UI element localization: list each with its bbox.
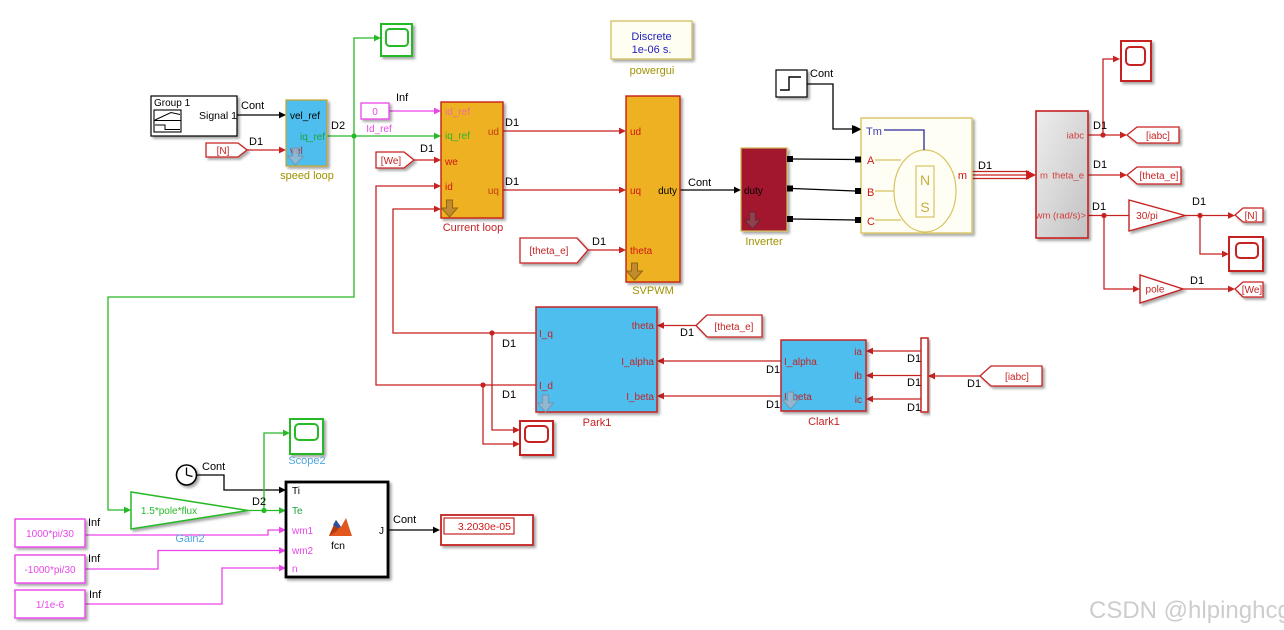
svg-text:[N]: [N]: [217, 146, 230, 157]
wire SVPWM duty to Inverter duty (Cont): [680, 187, 741, 194]
svg-text:D1: D1: [502, 338, 516, 350]
wire bus theta_e to goto tag theta_e (D1): [1088, 172, 1127, 179]
label D1 on motor m wire: [978, 160, 992, 172]
goto tag [theta_e]: [1127, 167, 1181, 184]
svg-text:theta: theta: [630, 246, 653, 257]
label D1 on uq wire: [505, 176, 519, 188]
svg-text:wm1: wm1: [291, 526, 314, 537]
wire Inverter out C to motor C: [793, 219, 855, 220]
label D1 on pole output: [1190, 275, 1204, 287]
label D1 on theta wire: [592, 236, 606, 248]
svg-text:Cont: Cont: [393, 514, 416, 526]
badge link-arrow SVPWM: [627, 263, 643, 280]
wire Clark1 I_alpha to Park1 I_alpha (D1): [657, 358, 781, 365]
constant 1000*pi/30: [15, 519, 85, 547]
label Inf on constant2 wire: [88, 553, 101, 565]
wire iabc branch up to scope: [1103, 56, 1120, 135]
svg-text:Gain2: Gain2: [175, 533, 204, 545]
svg-text:I_d: I_d: [539, 381, 553, 392]
svg-text:D1: D1: [907, 377, 921, 389]
wire bus iabc to goto tag iabc (D1): [1088, 132, 1127, 139]
svg-text:fcn: fcn: [331, 540, 345, 552]
badge link-arrow Inverter: [745, 212, 761, 229]
svg-text:Cont: Cont: [241, 100, 264, 112]
svg-text:D1: D1: [505, 117, 519, 129]
label speed loop: [280, 170, 334, 182]
label D1 on theta_e wire: [1093, 159, 1107, 171]
wire demux out1 to Clark1 ia (D1): [866, 348, 921, 355]
junction dot on 30/pi output: [1197, 213, 1202, 218]
wire I_d branch to scope input 2: [483, 385, 520, 447]
svg-text:Inf: Inf: [88, 553, 101, 565]
from tag [theta_e] to SVPWM: [520, 238, 588, 263]
wire clock to fcn Ti (Cont): [197, 475, 286, 493]
svg-text:[theta_e]: [theta_e]: [530, 246, 569, 257]
red scope (currents, two inputs): [520, 421, 553, 455]
icon MATLAB logo in fcn: [329, 518, 352, 536]
svg-text:Cont: Cont: [688, 177, 711, 189]
svg-text:duty: duty: [658, 186, 677, 197]
wire junction right to Current loop iq_ref: [354, 133, 441, 140]
label D1 on Park theta wire: [680, 327, 694, 339]
svg-text:Cont: Cont: [202, 461, 225, 473]
svg-text:30/pi: 30/pi: [1136, 211, 1158, 222]
wire constant 1/1e-6 to fcn n (Inf magenta): [85, 565, 286, 604]
svg-text:uq: uq: [488, 186, 499, 197]
powergui block: [611, 21, 692, 59]
wire demux out2 to Clark1 ib (D1): [866, 372, 921, 379]
svg-text:1000*pi/30: 1000*pi/30: [26, 529, 74, 540]
svg-text:C: C: [867, 216, 875, 228]
label Cont on clock wire: [202, 461, 225, 473]
svg-text:Park1: Park1: [583, 417, 612, 429]
wire I_q branch to scope input 1: [492, 333, 520, 433]
svg-text:[iabc]: [iabc]: [1146, 131, 1170, 142]
svg-text:m: m: [958, 170, 967, 182]
goto tag [iabc]: [1127, 127, 1179, 143]
wire Current loop ud to SVPWM ud (D1): [503, 128, 626, 135]
badge link-arrow Current loop: [442, 200, 458, 217]
goto tag [We]: [1235, 282, 1263, 297]
wire constant 0 to Current loop id_ref (magenta): [389, 108, 441, 115]
label D1 on I_beta wire: [766, 399, 780, 411]
svg-text:D1: D1: [502, 389, 516, 401]
svg-text:pole: pole: [1146, 285, 1165, 296]
wire Current loop uq to SVPWM uq (D1): [503, 187, 626, 194]
svg-text:Inf: Inf: [89, 589, 102, 601]
label Inf on constant3 wire: [89, 589, 102, 601]
wire from-tag We to Current loop we: [414, 157, 441, 164]
svg-text:D2: D2: [331, 120, 345, 132]
junction dot on I_q wire: [489, 330, 494, 335]
svg-text:A: A: [867, 155, 875, 167]
svg-text:we: we: [444, 157, 458, 168]
svg-text:D1: D1: [766, 364, 780, 376]
svg-text:D1: D1: [505, 176, 519, 188]
junction dot on I_d wire: [480, 382, 485, 387]
svg-text:ib: ib: [854, 371, 862, 382]
svg-text:D1: D1: [680, 327, 694, 339]
svg-text:D1: D1: [249, 136, 263, 148]
svg-text:iq_ref: iq_ref: [445, 131, 470, 142]
svg-text:J: J: [379, 526, 384, 537]
svg-text:[iabc]: [iabc]: [1005, 372, 1029, 383]
svg-text:D2: D2: [252, 496, 266, 508]
wire demux out3 to Clark1 ic (D1): [866, 396, 921, 403]
label D1 on 30/pi output: [1192, 196, 1206, 208]
wire signal builder to speed loop vel_ref (Cont): [237, 112, 286, 119]
wire Inverter out A to motor A: [793, 158, 855, 161]
from tag [iabc]: [980, 366, 1042, 386]
block Inverter: [741, 148, 787, 231]
wire constant 1000*pi/30 to fcn wm1 (Inf magenta): [85, 527, 286, 535]
wire Park1 I_q output to Current loop iq: [393, 206, 536, 333]
svg-text:[We]: [We]: [1242, 285, 1263, 296]
port pad Inverter out B: [787, 186, 793, 192]
svg-text:ic: ic: [855, 395, 862, 406]
junction dot on iabc wire: [1100, 132, 1105, 137]
wire gain 30/pi to goto tag N (D1): [1185, 212, 1235, 219]
block Clark1 subsystem: [781, 340, 866, 411]
wire junction up to green scope: [354, 35, 381, 136]
svg-text:theta: theta: [632, 321, 655, 332]
svg-text:id_ref: id_ref: [445, 107, 470, 118]
svg-text:iq_ref: iq_ref: [300, 132, 325, 143]
from tag [We]: [376, 152, 414, 168]
block speed loop subsystem: [286, 100, 327, 166]
svg-text:D1: D1: [907, 353, 921, 365]
svg-text:powergui: powergui: [630, 65, 675, 77]
junction dot D2 at speed loop output: [351, 133, 356, 138]
display block 3.2030e-05: [441, 515, 533, 545]
label D2 on speed loop output: [331, 120, 345, 132]
red scope (N): [1229, 237, 1263, 271]
port pad motor B: [855, 188, 861, 194]
label SVPWM: [632, 285, 674, 297]
svg-text:I_alpha: I_alpha: [784, 357, 817, 368]
wire from-tag theta_e to Park1 theta: [657, 322, 696, 329]
wire Gain2 to fcn Te (D2): [248, 507, 286, 514]
label fcn inside block: [331, 540, 345, 552]
svg-text:vel_ref: vel_ref: [290, 111, 320, 122]
svg-text:[theta_e]: [theta_e]: [1140, 171, 1179, 182]
block bus selector (gray): [1035, 111, 1088, 238]
badge link-arrow Clark1: [783, 392, 799, 409]
svg-text:3.2030e-05: 3.2030e-05: [458, 521, 511, 533]
svg-text:D1: D1: [766, 399, 780, 411]
svg-text:Scope2: Scope2: [288, 455, 325, 467]
svg-text:D1: D1: [592, 236, 606, 248]
svg-text:D1: D1: [978, 160, 992, 172]
block SVPWM subsystem: [626, 96, 680, 282]
wire Park1 I_d output to Current loop id: [376, 183, 536, 385]
label Id_ref: [366, 124, 392, 135]
svg-text:ia: ia: [854, 347, 862, 358]
svg-text:SVPWM: SVPWM: [632, 285, 674, 297]
watermark CSDN: [1089, 597, 1284, 624]
junction dot on Te wire: [261, 508, 266, 513]
svg-text:Clark1: Clark1: [808, 416, 840, 428]
svg-text:Tm: Tm: [866, 126, 882, 138]
svg-text:uq: uq: [630, 186, 641, 197]
label Inf on constant 0 wire: [396, 92, 409, 104]
svg-text:Inf: Inf: [88, 517, 101, 529]
svg-text:I_alpha: I_alpha: [621, 357, 654, 368]
svg-text:Id_ref: Id_ref: [366, 124, 392, 135]
svg-text:Te: Te: [292, 506, 303, 517]
label Park1: [583, 417, 612, 429]
svg-text:wm2: wm2: [291, 546, 314, 557]
svg-text:0: 0: [372, 107, 378, 118]
svg-text:N: N: [920, 172, 930, 188]
label D1 on iabc from wire: [967, 378, 981, 390]
wire motor m to bus selector (triple line D1): [972, 170, 1036, 180]
wire from-tag iabc to demux (D1): [928, 373, 980, 380]
svg-text:D1: D1: [1093, 159, 1107, 171]
svg-text:Ti: Ti: [292, 486, 300, 497]
wire step to motor Tm (Cont): [807, 84, 861, 132]
port arrow motor Tm: [852, 125, 861, 134]
label Clark1: [808, 416, 840, 428]
label Inverter: [745, 236, 783, 248]
block fcn (MATLAB Function): [286, 482, 388, 577]
wire 30/pi branch down to scope: [1200, 216, 1229, 258]
label Inf on constant1 wire: [88, 517, 101, 529]
label D1 on I_d wire: [502, 389, 516, 401]
svg-text:D1: D1: [420, 143, 434, 155]
goto tag [N]: [1235, 208, 1263, 222]
wire Inverter out B to motor B: [793, 189, 855, 192]
wire Clark1 I_beta to Park1 I_beta (D1): [657, 393, 781, 400]
wire constant -1000*pi/30 to fcn wm2 (Inf magenta): [85, 547, 286, 569]
svg-text:id: id: [445, 182, 453, 193]
svg-text:I_q: I_q: [539, 329, 553, 340]
label D1 on iabc wire: [1093, 120, 1107, 132]
svg-text:D1: D1: [967, 378, 981, 390]
port pad Inverter out A: [787, 156, 793, 162]
wire from-tag N to speed loop vel (D1): [247, 147, 286, 154]
svg-text:1/1e-6: 1/1e-6: [36, 600, 65, 611]
junction dot on wm wire: [1101, 213, 1106, 218]
svg-text:D1: D1: [907, 402, 921, 414]
svg-text:D1: D1: [1092, 201, 1106, 213]
label powergui: [630, 65, 675, 77]
svg-text:n: n: [292, 564, 298, 575]
constant 1/1e-6: [15, 590, 85, 618]
port pad motor C: [855, 217, 861, 223]
svg-text:Discrete: Discrete: [631, 31, 671, 43]
red scope (iabc, top right): [1121, 41, 1151, 81]
green scope (top): [381, 24, 412, 56]
svg-text:1e-06 s.: 1e-06 s.: [632, 44, 672, 56]
svg-text:D1: D1: [1190, 275, 1204, 287]
label Gain2: [175, 533, 204, 545]
label Cont on J wire: [393, 514, 416, 526]
label D1 on ic wire: [907, 402, 921, 414]
svg-text:[We]: [We]: [381, 156, 402, 167]
label Current loop: [443, 222, 504, 234]
svg-text:S: S: [920, 199, 929, 215]
label D1 on ia wire: [907, 353, 921, 365]
badge link-arrow speed loop: [288, 148, 304, 165]
svg-text:[N]: [N]: [1245, 211, 1258, 222]
svg-text:[theta_e]: [theta_e]: [715, 322, 754, 333]
from tag [theta_e] to Park1: [696, 315, 762, 337]
port pad Inverter out C: [787, 216, 793, 222]
svg-text:Current loop: Current loop: [443, 222, 504, 234]
svg-text:ud: ud: [630, 127, 641, 138]
wire fcn J to display (Cont): [388, 527, 440, 534]
gain pole: [1140, 275, 1183, 303]
svg-text:ud: ud: [488, 127, 499, 138]
label Cont on duty wire: [688, 177, 711, 189]
gain 30/pi: [1129, 200, 1185, 231]
label D1 on wm wire: [1092, 201, 1106, 213]
wire Te branch up to Scope2: [264, 430, 290, 511]
constant 0 (Id_ref): [361, 103, 389, 119]
svg-text:I_beta: I_beta: [626, 392, 654, 403]
svg-text:-1000*pi/30: -1000*pi/30: [24, 565, 76, 576]
badge link-arrow Park1: [538, 395, 554, 412]
block Signal Builder (Group 1 / Signal 1): [151, 96, 237, 136]
label Scope2: [288, 455, 325, 467]
label D1 on I_alpha wire: [766, 364, 780, 376]
wire gain pole to goto tag We (D1): [1183, 286, 1235, 293]
svg-text:duty: duty: [744, 186, 763, 197]
label D1 on I_q wire: [502, 338, 516, 350]
constant -1000*pi/30: [15, 555, 85, 583]
svg-text:Group 1: Group 1: [154, 98, 191, 109]
from tag [N]: [206, 143, 247, 157]
wire wm branch down to gain pole: [1104, 216, 1140, 293]
clock block: [177, 465, 197, 485]
step block: [776, 70, 807, 97]
label Cont on signal builder wire: [241, 100, 264, 112]
label D2 on Gain2 output: [252, 496, 266, 508]
green scope Scope2: [290, 419, 323, 454]
port pad motor A: [855, 157, 861, 163]
label D1 on We wire: [420, 143, 434, 155]
label D1 on ib wire: [907, 377, 921, 389]
svg-text:D1: D1: [1192, 196, 1206, 208]
svg-text:B: B: [867, 187, 874, 199]
svg-text:D1: D1: [1093, 120, 1107, 132]
wire junction down-left-down to Gain2 input: [108, 136, 354, 513]
svg-text:wm (rad/s)>: wm (rad/s)>: [1035, 211, 1087, 222]
svg-text:Cont: Cont: [810, 68, 833, 80]
block Park1 subsystem: [536, 307, 657, 412]
svg-text:speed loop: speed loop: [280, 170, 334, 182]
label D1 on N wire: [249, 136, 263, 148]
demux block: [921, 338, 928, 412]
wire bus wm to gain 30/pi (D1): [1088, 215, 1129, 217]
svg-text:CSDN @hlpinghcg: CSDN @hlpinghcg: [1089, 597, 1284, 624]
label Cont on step wire: [810, 68, 833, 80]
svg-text:theta_e: theta_e: [1052, 171, 1084, 182]
gain Gain2 (1.5*pole*flux): [131, 492, 248, 529]
label D1 on ud wire: [505, 117, 519, 129]
svg-text:iabc: iabc: [1067, 131, 1085, 142]
wire from-tag theta_e to SVPWM theta: [588, 247, 626, 254]
svg-text:m: m: [1040, 171, 1048, 182]
wire speed loop iq_ref to junction (D2 green): [327, 135, 354, 137]
svg-text:Inverter: Inverter: [745, 236, 783, 248]
block PMSM motor: [861, 118, 972, 233]
svg-text:Signal 1: Signal 1: [199, 110, 237, 122]
svg-text:1.5*pole*flux: 1.5*pole*flux: [141, 506, 197, 517]
block Current loop subsystem: [441, 102, 503, 218]
svg-text:Inf: Inf: [396, 92, 409, 104]
